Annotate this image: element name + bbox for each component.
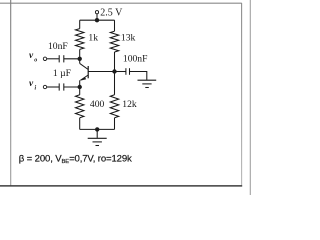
transistor Q1 emitter wire down [79, 80, 81, 87]
transistor Q1 collector diagonal [80, 63, 89, 69]
wire supply to rail [96, 14, 98, 20]
table border: top rule [0, 2, 242, 4]
wire bottom rail to ground [96, 130, 98, 138]
resistor 12k [110, 95, 118, 118]
junction node: emitter [78, 85, 82, 89]
svg-text:v: v [29, 51, 34, 61]
svg-text:β = 200, VBE=0,7V, ro=129k: β = 200, VBE=0,7V, ro=129k [19, 154, 132, 165]
svg-text:v: v [29, 79, 34, 89]
transistor Q1 emitter diagonal [80, 75, 88, 80]
svg-text:i: i [35, 85, 37, 91]
transistor Q1 base bar [87, 66, 89, 78]
resistor 13k [110, 31, 118, 52]
junction node: base divider [112, 69, 116, 73]
top rail wire [80, 19, 115, 21]
wire emitter node to R 400 [79, 87, 81, 95]
wire 12k to bottom rail [114, 118, 116, 130]
wire 13k to base node [114, 52, 116, 72]
svg-text:12k: 12k [122, 99, 137, 110]
svg-text:1k: 1k [88, 33, 98, 44]
junction node: collector [78, 57, 82, 61]
wire rail to R 13k [114, 20, 116, 31]
wire 400 to bottom rail [79, 118, 81, 130]
wire rail to R 1k [79, 20, 81, 28]
svg-text:2.5 V: 2.5 V [100, 7, 123, 18]
wire 10nF to collector node [64, 58, 80, 60]
bottom rail wire [80, 128, 115, 130]
transistor Q1 emitter arrow [81, 77, 86, 81]
terminal circle v_i [43, 85, 46, 88]
wire 1uF to emitter node [64, 86, 80, 88]
junction node: bottom rail/ground [95, 127, 99, 131]
ground (main) [88, 137, 107, 139]
terminal circle v_o [43, 57, 46, 60]
wire 1k to collector node [79, 49, 81, 58]
svg-text:1 µF: 1 µF [53, 68, 71, 79]
page edge rule far right [249, 0, 251, 195]
table border: right rule [241, 3, 243, 185]
resistor 400 [76, 95, 84, 118]
junction node: supply/rail [95, 18, 99, 22]
svg-text:400: 400 [90, 99, 105, 110]
table border: left rule [10, 0, 12, 186]
capacitor 10nF plates [58, 55, 60, 62]
svg-text:13k: 13k [121, 33, 136, 44]
supply terminal circle 2.5V [95, 11, 98, 14]
wire base node down to R 12k [114, 72, 116, 95]
capacitor 100nF lead from base node [115, 71, 126, 73]
svg-text:o: o [34, 57, 37, 63]
svg-text:100nF: 100nF [123, 54, 148, 65]
capacitor 100nF plates [125, 68, 127, 75]
resistor 1k [76, 29, 84, 50]
ground (right, decoupling) [138, 79, 157, 81]
wire v_i to capacitor 1uF [47, 86, 60, 88]
table border: bottom rule [0, 185, 242, 187]
wire v_o to capacitor 10nF [47, 58, 60, 60]
capacitor 1uF plates [58, 83, 60, 90]
transistor Q1 base wire to divider node [88, 71, 114, 73]
transistor Q1 collector wire [79, 59, 81, 64]
svg-text:10nF: 10nF [48, 41, 68, 52]
wire 100nF to ground [130, 72, 147, 80]
